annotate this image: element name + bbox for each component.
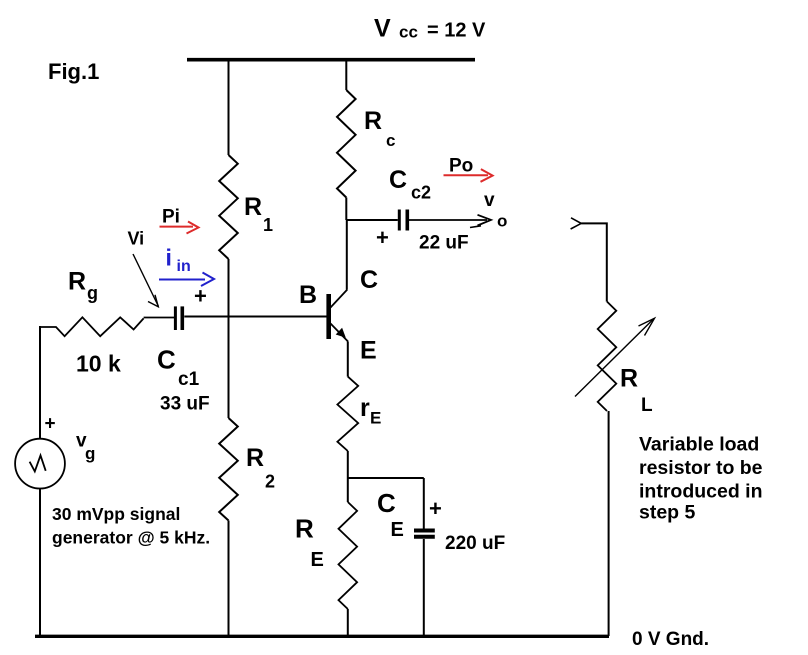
label v o <box>484 190 507 231</box>
label rE <box>360 394 381 428</box>
connector chevron at RL top <box>571 218 582 229</box>
svg-text:Vi: Vi <box>128 229 145 249</box>
svg-text:g: g <box>85 444 95 463</box>
Vcc rail <box>187 58 475 62</box>
label CE <box>377 488 404 541</box>
note variable load <box>639 434 763 524</box>
resistor Rc <box>337 90 356 198</box>
svg-text:cc: cc <box>399 23 418 42</box>
svg-text:R: R <box>244 193 262 221</box>
svg-text:33 uF: 33 uF <box>160 394 210 415</box>
svg-text:c2: c2 <box>411 183 431 203</box>
wire Rg to Cc1 <box>144 317 174 319</box>
svg-text:Variable load: Variable load <box>639 434 759 456</box>
svg-text:E: E <box>311 549 324 571</box>
svg-text:E: E <box>370 409 381 428</box>
svg-text:E: E <box>391 519 404 541</box>
svg-text:c1: c1 <box>178 369 200 390</box>
svg-text:V: V <box>374 15 391 43</box>
svg-text:generator @ 5 kHz.: generator @ 5 kHz. <box>52 527 210 547</box>
arrow Vi <box>133 254 159 307</box>
wire RE to ground <box>347 609 349 635</box>
capacitor CE <box>414 531 435 537</box>
svg-text:R: R <box>246 444 264 472</box>
resistor R1 <box>219 155 238 259</box>
wire rail to R1 <box>228 61 230 155</box>
svg-text:Fig.1: Fig.1 <box>48 59 99 84</box>
wire base node to R2 <box>228 317 230 419</box>
note 30 mVpp <box>52 504 210 547</box>
svg-text:2: 2 <box>265 472 275 492</box>
resistor RL <box>598 302 617 411</box>
svg-text:+: + <box>45 414 56 435</box>
wire R2 to ground <box>228 521 230 636</box>
svg-text:C: C <box>377 488 396 518</box>
svg-text:introduced in: introduced in <box>639 480 763 502</box>
svg-text:C: C <box>389 166 407 194</box>
transistor emitter arrowhead <box>336 328 346 338</box>
wire Cc2 to output <box>409 219 487 221</box>
label Cc1 <box>157 345 200 391</box>
label R1 <box>244 193 273 235</box>
svg-text:0 V Gnd.: 0 V Gnd. <box>632 629 709 650</box>
svg-text:r: r <box>360 394 370 422</box>
svg-text:R: R <box>295 514 314 544</box>
svg-text:+: + <box>376 225 389 250</box>
arrow Pi (red) <box>160 222 199 234</box>
resistor Rg <box>40 317 144 336</box>
output arrowhead vo <box>470 215 491 228</box>
wire collector node to Cc2 <box>346 219 398 221</box>
wire emitter down <box>347 342 349 377</box>
svg-text:B: B <box>299 281 317 309</box>
wire CE branch down <box>423 478 425 529</box>
ground rail <box>35 635 609 638</box>
svg-text:10 k: 10 k <box>76 351 121 377</box>
svg-text:+: + <box>194 284 207 309</box>
resistor RE <box>339 502 358 609</box>
wire left column top <box>39 326 41 439</box>
label Rg <box>68 268 98 304</box>
wire CE to ground <box>423 539 425 635</box>
transistor collector stroke <box>331 290 348 308</box>
wire Rc to collector node <box>345 198 347 221</box>
wire base <box>184 316 326 318</box>
wire RL to ground <box>608 411 610 636</box>
wire rE to emitter node <box>347 451 349 502</box>
svg-text:220 uF: 220 uF <box>445 533 505 554</box>
svg-text:C: C <box>157 345 176 375</box>
svg-text:R: R <box>620 365 638 393</box>
svg-text:R: R <box>68 268 86 296</box>
svg-text:E: E <box>360 337 377 365</box>
wire emitter node to CE branch <box>348 477 424 479</box>
label Cc2 <box>389 166 431 203</box>
svg-text:1: 1 <box>263 215 273 235</box>
svg-text:i: i <box>166 245 172 271</box>
svg-text:Po: Po <box>449 156 473 177</box>
label i in (blue) <box>166 245 191 276</box>
label RE <box>295 514 324 572</box>
transistor emitter stroke <box>331 324 349 342</box>
source waveform <box>30 455 46 471</box>
transistor Q1 base bar <box>326 294 331 339</box>
svg-text:30 mVpp signal: 30 mVpp signal <box>52 504 180 524</box>
svg-text:L: L <box>641 395 653 416</box>
wire collector node down to transistor C <box>346 220 348 290</box>
capacitor Cc1 <box>175 306 182 330</box>
svg-text:22 uF: 22 uF <box>419 233 469 254</box>
svg-text:in: in <box>177 258 191 275</box>
svg-text:g: g <box>87 283 98 303</box>
label R2 <box>246 444 275 492</box>
resistor rE <box>337 377 358 451</box>
wire source to ground <box>39 489 41 637</box>
wire R1 bottom to base wire <box>228 259 230 317</box>
svg-text:Pi: Pi <box>162 207 180 228</box>
svg-text:+: + <box>429 496 442 521</box>
svg-text:C: C <box>360 266 378 294</box>
svg-text:= 12 V: = 12 V <box>427 20 486 42</box>
wire rail to Rc <box>345 61 347 90</box>
wire RL top <box>581 223 607 301</box>
label RL <box>620 365 653 417</box>
label vg <box>76 431 95 463</box>
svg-text:R: R <box>364 107 382 135</box>
source Vg circle <box>15 439 65 489</box>
svg-text:c: c <box>386 131 395 150</box>
svg-text:v: v <box>484 190 495 211</box>
label Rc <box>364 107 395 150</box>
svg-text:step 5: step 5 <box>639 502 696 524</box>
svg-text:o: o <box>497 212 507 231</box>
arrow Po (red) <box>444 169 493 182</box>
svg-text:resistor to be: resistor to be <box>639 457 763 479</box>
resistor R2 <box>219 418 238 521</box>
label Vcc = 12 V <box>374 15 486 43</box>
arrow RL variable <box>575 318 655 396</box>
arrow i in (blue) <box>159 273 214 287</box>
capacitor Cc2 <box>399 210 407 231</box>
